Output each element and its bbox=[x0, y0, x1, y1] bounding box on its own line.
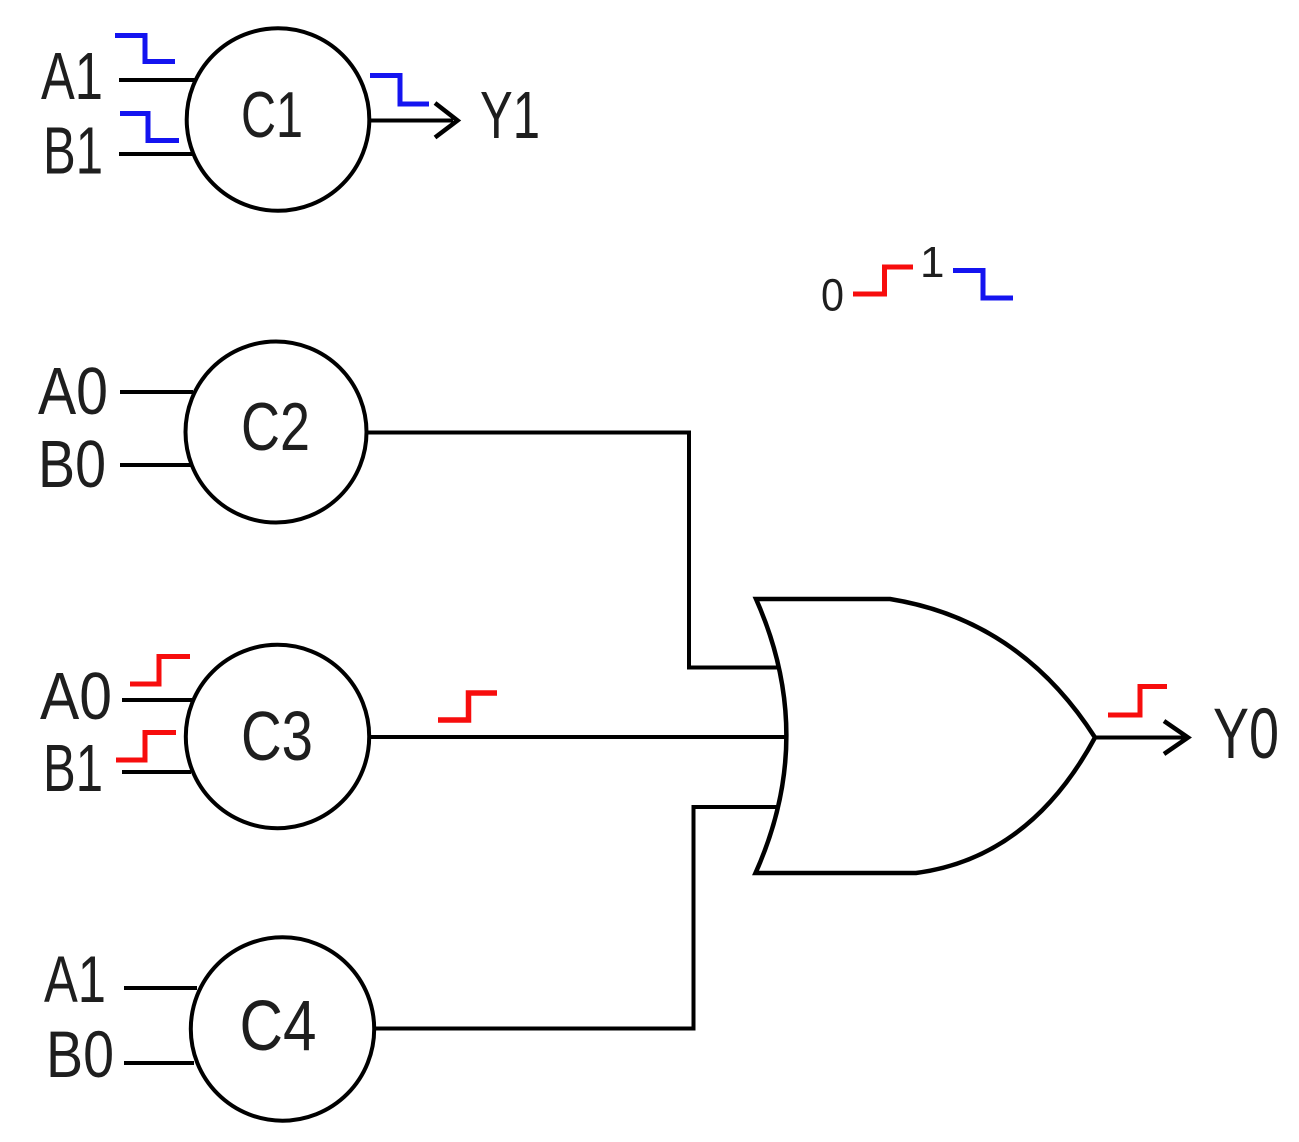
comparator C1 circle bbox=[187, 28, 370, 211]
wire B1 to C1 bbox=[119, 152, 193, 156]
wire A0 to C3 bbox=[122, 698, 192, 702]
rising-edge waveform (red) at A0 bbox=[130, 657, 190, 685]
comparator C4 circle bbox=[191, 937, 374, 1120]
rising-edge waveform (red) at Y0 bbox=[1108, 687, 1167, 716]
svg-text:A0: A0 bbox=[38, 354, 108, 429]
falling-edge waveform (blue) at B1 bbox=[120, 114, 179, 141]
svg-text:A0: A0 bbox=[40, 659, 112, 734]
svg-text:1: 1 bbox=[920, 238, 944, 287]
wire C3 output to OR gate bbox=[369, 735, 788, 739]
svg-text:0: 0 bbox=[821, 270, 844, 321]
wire B0 to C4 bbox=[124, 1061, 194, 1065]
svg-text:B0: B0 bbox=[46, 1017, 114, 1091]
wire A0 to C2 bbox=[120, 390, 193, 394]
falling-edge waveform (blue) at Y1 bbox=[370, 76, 429, 105]
svg-text:B1: B1 bbox=[43, 114, 103, 189]
svg-text:B1: B1 bbox=[43, 731, 103, 806]
wire A1 to C4 bbox=[124, 986, 197, 990]
legend falling-edge waveform (blue) bbox=[953, 271, 1013, 299]
svg-text:A1: A1 bbox=[41, 39, 103, 114]
legend rising-edge waveform (red) bbox=[853, 267, 913, 294]
svg-text:C2: C2 bbox=[241, 389, 310, 465]
svg-text:C4: C4 bbox=[240, 987, 317, 1066]
arrowhead Y0 bbox=[1164, 721, 1188, 754]
rising-edge waveform (red) at B1 bbox=[116, 733, 176, 761]
OR gate U1 bbox=[756, 599, 1096, 873]
arrowhead Y1 bbox=[435, 103, 458, 138]
comparator C3 circle bbox=[186, 645, 369, 828]
wire C2 output to OR gate bbox=[366, 433, 782, 668]
falling-edge waveform (blue) at A1 bbox=[115, 36, 175, 62]
svg-text:C3: C3 bbox=[241, 697, 313, 775]
svg-text:Y1: Y1 bbox=[480, 78, 540, 153]
comparator C2 circle bbox=[186, 342, 367, 523]
wire B1 to C3 bbox=[122, 770, 191, 774]
svg-text:A1: A1 bbox=[44, 942, 106, 1016]
svg-text:B0: B0 bbox=[38, 427, 106, 502]
svg-text:C1: C1 bbox=[241, 78, 303, 151]
wire C1 output bbox=[370, 119, 454, 123]
wire B0 to C2 bbox=[120, 463, 192, 467]
wire C4 output to OR gate bbox=[374, 807, 782, 1029]
wire Y0 output bbox=[1095, 736, 1185, 740]
rising-edge waveform (red) at C3 output bbox=[438, 693, 497, 720]
svg-text:Y0: Y0 bbox=[1213, 695, 1279, 774]
wire A1 to C1 bbox=[119, 78, 196, 82]
